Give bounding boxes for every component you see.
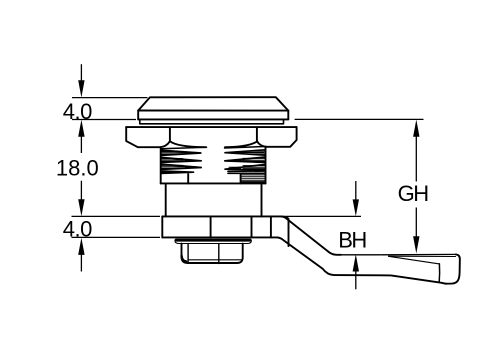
cam arm bottom edge [278,237,446,283]
dim line lower tail [80,254,82,272]
ext line band bottom left [72,236,161,238]
dim line between arrows (18.0) [80,135,82,201]
cam arm tip right outline [446,254,460,283]
dim line top arrow tail (4.0 top) [80,64,82,81]
svg-text:18.0: 18.0 [56,156,99,181]
cap mid line [138,110,288,112]
ext line cap bottom [72,119,136,121]
spring right coil inner lines [228,151,265,168]
hex nut right facet line [256,127,258,141]
spring right lower block left edge [240,173,242,183]
bottom nut dark corner [182,256,187,262]
thin washer dark band [175,239,252,242]
cam arm tip wedge line [389,256,440,264]
ext line cap top [72,97,148,99]
spring bottom line across stem [161,182,266,184]
stem right edge [261,185,263,217]
spring right top line [225,147,266,149]
svg-text:BH: BH [338,228,366,253]
ext line GH top [295,118,424,120]
spring left coil loops [161,150,201,173]
cam arm bend side edge [282,216,289,246]
GH dim line upper [415,135,417,182]
BH dim line upper [355,181,357,201]
spring right right-edge [265,147,267,183]
hex nut right side [257,127,297,147]
spring right coil loops [225,150,265,174]
cam arm top edge [282,216,342,254]
svg-text:GH: GH [398,181,429,206]
arrowhead down GH [413,236,419,253]
bottom nut outline [182,244,243,263]
stop washer band bottom [162,236,277,238]
hex nut top [126,126,296,128]
arrowhead down to band top [78,199,84,216]
spring left coil tip fills [185,152,201,169]
svg-text:4.0: 4.0 [63,217,92,242]
bottom nut inner bottom line [188,259,242,261]
cam arm top near edge [389,255,456,257]
spring right lower block hatch [242,175,265,181]
stem left edge [165,184,167,217]
spring right lower block bottom [241,181,266,183]
arrowhead down BH [353,199,359,216]
hex nut left side [126,127,170,147]
bottom nut divider [218,244,220,264]
cam arm tip end face edge [438,264,440,283]
GH dim line lower [415,208,417,238]
BH ext line [284,215,362,217]
arrowhead down to cap top [78,80,84,97]
spring left lower box divider [187,174,189,183]
hex nut left facet line [169,127,171,141]
hex nut middle arc left [170,141,206,147]
hex nut middle arc right [225,141,257,147]
stop washer band divider 3 [270,216,272,237]
thin washer lip [175,241,252,244]
spring left top line [162,147,207,149]
BH dim line lower tail [355,271,357,289]
stop washer band top [162,215,281,217]
svg-text:4.0: 4.0 [63,99,92,124]
stop washer band divider 1 [210,216,212,237]
spring right coil tip fills [225,152,241,170]
arrowhead up to cap bottom [78,120,84,137]
stop washer band left [161,216,163,237]
cap bottom line [138,118,288,120]
spring left left-edge [160,148,162,183]
arrowhead up to band bottom [78,238,84,255]
ext line band top left [72,215,161,217]
cap collar [140,119,284,123]
cap head outline [138,97,288,119]
arrowhead up GH [413,120,419,137]
spring left coil inner lines [161,152,196,173]
bottom nut left facet [187,244,189,263]
arrowhead up BH [353,254,359,271]
stop washer band divider 2 [251,216,253,237]
